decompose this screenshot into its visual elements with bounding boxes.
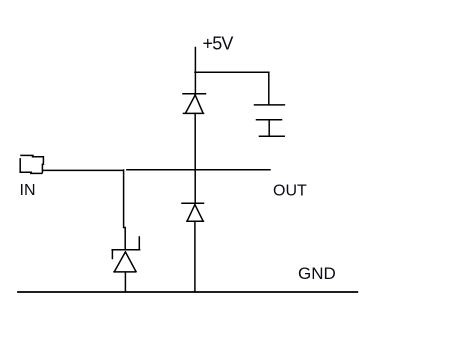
- wire zener anode to ground bus: [124, 272, 126, 292]
- wire +5V rail vertical: [194, 48, 196, 94]
- ground bus: [18, 291, 357, 293]
- svg-text:OUT: OUT: [273, 183, 307, 200]
- svg-text:GND: GND: [298, 264, 336, 283]
- zener diode D3: [112, 237, 139, 272]
- svg-text:+5V: +5V: [203, 34, 234, 54]
- wire junction down to zener: [124, 170, 126, 250]
- wire capacitor top lead: [268, 72, 270, 104]
- diode D2 (clamp to GND, cathode up): [182, 203, 204, 221]
- diode D1 (clamp to +5V, cathode up): [183, 94, 206, 114]
- svg-text:IN: IN: [20, 182, 36, 199]
- wire IN to junction: [43, 169, 122, 171]
- wire +5V branch to capacitor: [195, 71, 269, 73]
- wire OUT horizontal: [127, 169, 270, 171]
- capacitor C1: [255, 105, 285, 136]
- wire D2 anode to ground bus: [194, 221, 196, 292]
- connector IN box: [20, 155, 43, 173]
- wire D1 anode down through OUT node to D2 cathode: [194, 113, 196, 203]
